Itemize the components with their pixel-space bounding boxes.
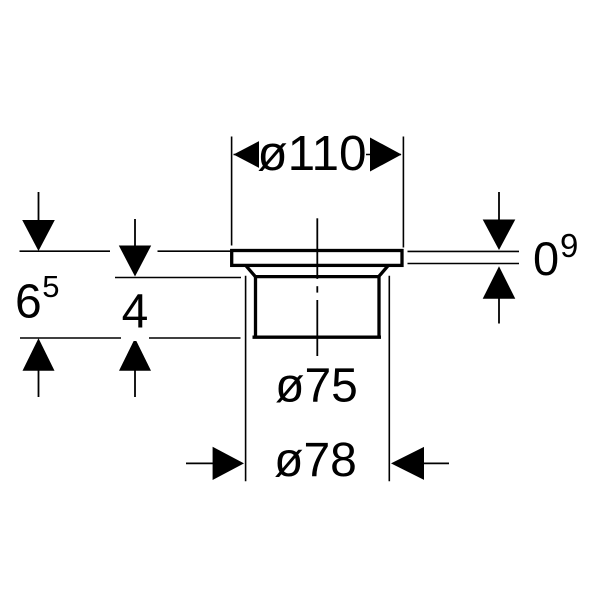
arrowhead ø110 left (234, 139, 265, 171)
dimension line ø110 (234, 154, 402, 156)
arrow tail ø78 left (186, 462, 214, 464)
arrowhead ø78 right (391, 447, 424, 480)
neck taper right (379, 265, 389, 276)
svg-text:ø110: ø110 (257, 126, 366, 181)
arrow tail ø78 right (422, 462, 449, 464)
extension line ø110 left (231, 137, 233, 246)
dimension line 4 top (115, 277, 241, 279)
svg-text:0: 0 (533, 232, 559, 285)
neck taper left (246, 265, 256, 276)
dimension line 6.5/4 bottom (20, 337, 241, 339)
svg-text:9: 9 (560, 227, 578, 264)
svg-text:ø75: ø75 (275, 360, 358, 413)
dimension line 0.9 bottom (408, 263, 520, 265)
svg-text:4: 4 (122, 286, 149, 339)
dimension line 6.5 top right segment (158, 250, 231, 252)
svg-text:5: 5 (42, 269, 59, 304)
arrowhead 6.5 up (23, 338, 55, 371)
label box ø110 (259, 128, 366, 176)
cylinder wall left (254, 277, 257, 338)
extension line ø110 right (402, 137, 404, 248)
arrow tail 6.5 top (38, 192, 40, 222)
cylinder wall right (377, 277, 380, 338)
flange plate outline (232, 251, 402, 266)
arrow tail 0.9 top (498, 192, 500, 221)
extension line ø78 right (388, 276, 390, 482)
cylinder bottom edge (253, 336, 382, 339)
arrowhead ø78 left (213, 447, 244, 480)
label box 4 (121, 285, 149, 341)
arrowhead 0.9 up (483, 266, 516, 299)
arrow tail 4 bottom (134, 368, 136, 397)
svg-text:ø78: ø78 (274, 434, 357, 487)
dimension line 0.9 top (408, 250, 520, 252)
extension line ø78 left (245, 276, 247, 482)
arrow tail 0.9 bottom (498, 297, 500, 323)
dimension line 6.5 top left segment (20, 250, 111, 252)
arrowhead 4 up (119, 338, 151, 371)
centerline (316, 218, 318, 356)
arrow tail 4 top (134, 219, 136, 247)
arrow tail 6.5 bottom (38, 368, 40, 397)
arrowhead ø110 right (370, 138, 402, 172)
arrowhead 0.9 down (483, 220, 516, 251)
arrowhead 4 down (119, 246, 151, 277)
svg-text:6: 6 (15, 276, 42, 329)
arrowhead 6.5 down (22, 220, 55, 251)
bore top edge (254, 275, 381, 278)
